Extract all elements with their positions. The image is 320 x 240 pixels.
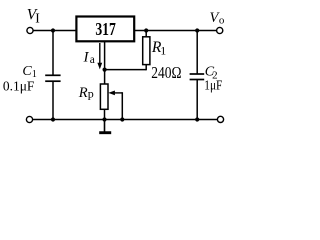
- capacitor C1: [45, 75, 60, 81]
- wire bottom rail: [33, 119, 218, 121]
- svg-text:a: a: [90, 54, 95, 66]
- node junction wiper-bottom rail: [120, 117, 124, 121]
- ground: [99, 120, 111, 133]
- node Vo output terminal: [217, 27, 223, 33]
- wiper arrow of Rp: [108, 91, 122, 120]
- svg-text:I: I: [35, 10, 40, 25]
- wire C2 top lead: [196, 31, 198, 75]
- capacitor C2: [190, 74, 205, 80]
- label Ia: [83, 50, 95, 66]
- label Vo: [210, 10, 225, 26]
- label VI: [27, 7, 41, 26]
- label R1: [151, 39, 166, 58]
- svg-text:317: 317: [95, 19, 116, 39]
- svg-text:R: R: [78, 85, 88, 101]
- wire R1 top lead: [145, 31, 147, 37]
- svg-text:C: C: [22, 64, 32, 79]
- wire C2 bottom lead: [196, 80, 198, 120]
- node bottom-left terminal: [26, 116, 32, 122]
- wire Rp bottom lead: [104, 109, 106, 119]
- node VI input terminal: [27, 27, 33, 33]
- svg-text:p: p: [88, 87, 94, 101]
- label C1: [22, 64, 37, 80]
- node bottom-right terminal: [217, 116, 223, 122]
- wire top rail right (317 output to Vo): [135, 30, 217, 32]
- node junction Rp-ground: [102, 117, 106, 121]
- node junction C2-bottom rail: [195, 117, 199, 121]
- svg-text:0.1μF: 0.1μF: [3, 80, 35, 95]
- wire C1 bottom lead: [52, 81, 54, 119]
- svg-text:I: I: [83, 50, 90, 66]
- wire R1 bottom lead: [145, 65, 147, 71]
- svg-text:1: 1: [32, 69, 37, 80]
- node junction adjust: [103, 68, 107, 72]
- svg-text:1: 1: [160, 44, 166, 58]
- wire adjust to R1 horizontal: [105, 69, 147, 71]
- svg-text:240Ω: 240Ω: [151, 63, 181, 82]
- svg-text:o: o: [219, 15, 225, 27]
- svg-text:1μF: 1μF: [204, 79, 222, 94]
- resistor R1: [143, 37, 150, 65]
- current arrow Ia: [97, 43, 102, 69]
- op-amp U1 regulator 317 box: [76, 17, 134, 42]
- node junction VI-C1: [51, 28, 55, 32]
- label C2: [205, 64, 218, 81]
- node junction Vo-R1: [144, 28, 148, 32]
- wire C1 top lead: [52, 31, 54, 76]
- node junction Vo-C2: [195, 28, 199, 32]
- label Rp: [78, 85, 94, 101]
- node junction C1-bottom rail: [51, 117, 55, 121]
- potentiometer Rp body: [100, 84, 108, 109]
- wire top rail left (VI to 317 input): [33, 30, 76, 32]
- wire adjust pin vertical: [104, 42, 106, 85]
